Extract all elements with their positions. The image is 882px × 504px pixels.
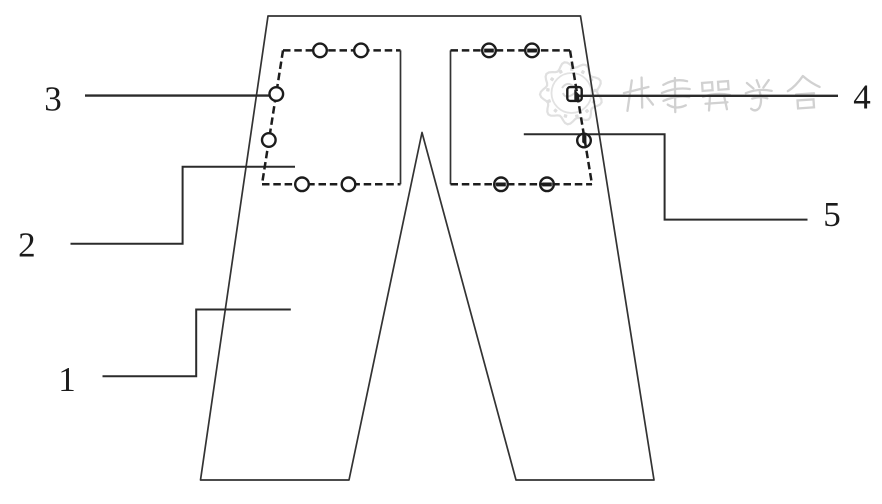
leader line 2: [71, 167, 296, 244]
svg-text:1: 1: [58, 360, 76, 399]
left pad top edge (dashed): [283, 49, 401, 52]
watermark seal ring text marks: [546, 67, 597, 118]
left pad left edge (dashed): [262, 50, 283, 184]
left pad bottom edge (dashed): [262, 183, 401, 186]
left pad fastener A (top-left, white filled): [313, 44, 327, 58]
dash wedge inside right pad lower circle fastener: [582, 135, 586, 146]
watermark character 3 (yi): [702, 81, 731, 111]
svg-text:4: 4: [853, 77, 871, 116]
leader line 3: [85, 94, 276, 96]
dash wedge inside right pad bottom-left circle: [496, 183, 506, 187]
watermark character 5 (hui): [787, 75, 821, 109]
leader line 1: [103, 310, 291, 377]
right pad fastener F (bottom-right, open): [540, 178, 554, 192]
trousers outline: [201, 16, 655, 480]
dash wedge inside right pad top-right circle: [527, 49, 537, 53]
right pad fastener B (top-right, open): [525, 44, 539, 58]
left pad fastener D (left lower, white filled): [262, 133, 276, 147]
leader line 5: [524, 134, 808, 219]
watermark character 1 (zhong): [623, 77, 654, 111]
dash wedge inside right pad square fastener: [574, 89, 579, 100]
svg-text:5: 5: [823, 195, 841, 234]
right pad left edge (solid seam): [450, 50, 452, 184]
left pad fastener E (bottom-left, white filled): [295, 178, 309, 192]
left pad right edge (solid seam): [400, 50, 402, 184]
right pad fastener D (right lower, open): [577, 134, 591, 148]
right pad bottom edge (dashed): [451, 183, 593, 186]
leader line 4: [576, 95, 838, 97]
right pad right edge (dashed): [570, 50, 592, 184]
watermark character 2 (hua): [661, 77, 691, 113]
dash wedge inside right pad bottom-right circle: [542, 183, 552, 187]
watermark seal (Chinese Medical Association): [540, 62, 602, 124]
right pad top edge (dashed): [451, 49, 571, 52]
left pad fastener B (top-right, white filled): [354, 44, 368, 58]
watermark character 4 (xue): [745, 79, 774, 111]
svg-text:2: 2: [18, 226, 36, 265]
left pad fastener C (left upper, white filled): [270, 87, 284, 101]
svg-text:3: 3: [44, 79, 62, 118]
dash wedge inside right pad top-left circle: [484, 49, 494, 53]
right pad fastener E (bottom-left, open): [494, 178, 508, 192]
right pad fastener A (top-left, open): [482, 44, 496, 58]
left pad fastener F (bottom-right, white filled): [342, 178, 356, 192]
right pad fastener C (right upper, open square): [567, 87, 581, 101]
